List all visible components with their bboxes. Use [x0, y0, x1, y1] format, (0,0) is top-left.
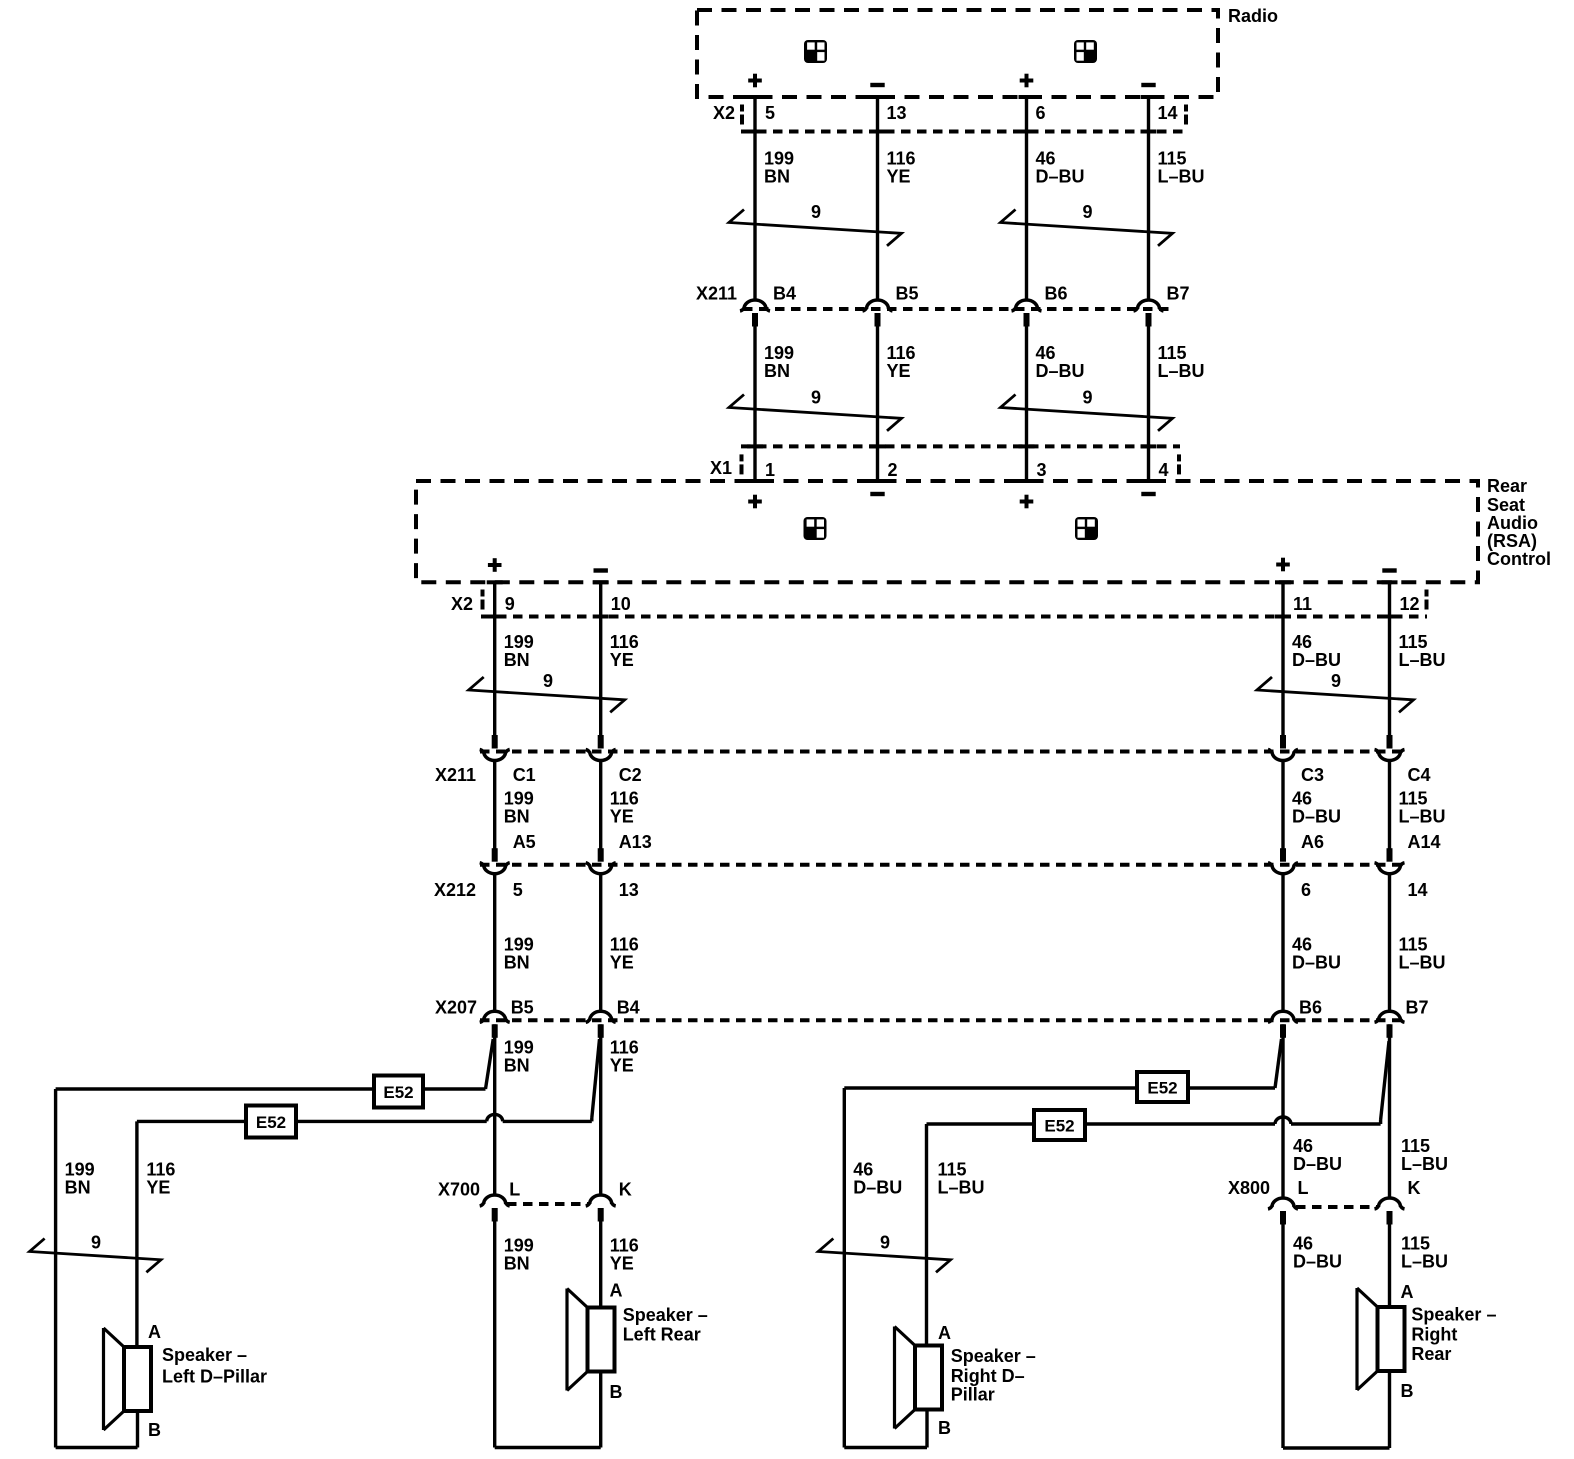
- wire 115 L-BU (E52 splice to right D-pillar speaker A): [925, 1124, 928, 1346]
- wire label 199 BN (below X700): [504, 1236, 534, 1274]
- connector X800 pin L: [1268, 1178, 1309, 1225]
- speaker - left D-pillar (symbol): [104, 1328, 152, 1430]
- svg-text:B: B: [148, 1420, 161, 1440]
- wire label 115 L-BU: [1399, 632, 1446, 670]
- svg-text:116: 116: [887, 343, 916, 363]
- svg-text:13: 13: [887, 103, 907, 123]
- svg-text:9: 9: [543, 671, 553, 691]
- svg-text:115: 115: [938, 1160, 967, 1180]
- wire label 199 BN: [504, 1038, 534, 1076]
- wire 46 D-BU (radio X2-6 to X211-B6): [1025, 97, 1028, 300]
- svg-text:3: 3: [1037, 460, 1047, 480]
- svg-text:C2: C2: [619, 765, 642, 785]
- wire 115 L-BU (X800-K to right rear speaker A): [1388, 1211, 1391, 1307]
- label Speaker - Right D-Pillar: [951, 1346, 1036, 1405]
- svg-text:116: 116: [610, 632, 639, 652]
- svg-text:115: 115: [1399, 935, 1428, 955]
- wire 115 L-BU (X207-B7 down to X800-K): [1388, 1024, 1391, 1198]
- wire 116 YE (X700-K to left rear speaker A): [599, 1208, 602, 1308]
- wire 199 BN (RSA X2-9 to X211-C1): [493, 582, 496, 735]
- connector X211 pin C1: [480, 735, 536, 785]
- svg-text:D–BU: D–BU: [1293, 1154, 1342, 1174]
- pin 5 (X2 radio): [765, 103, 775, 123]
- speaker-output icon (RSA left channel): [804, 517, 827, 540]
- svg-text:A6: A6: [1301, 832, 1324, 852]
- wire label 116 YE: [610, 1038, 639, 1076]
- pin 14 (X2 radio): [1158, 103, 1178, 123]
- wire label 115 L-BU: [1158, 343, 1205, 381]
- svg-text:B5: B5: [511, 998, 534, 1018]
- svg-text:12: 12: [1400, 594, 1420, 614]
- svg-text:9: 9: [811, 202, 821, 222]
- polarity - (radio pin 14): [1141, 83, 1155, 87]
- speaker - right rear (symbol): [1357, 1288, 1405, 1390]
- terminal B (right D-pillar): [938, 1418, 951, 1438]
- terminal A (left rear): [610, 1281, 623, 1301]
- wire 115 L-BU (RSA X2-12 to X211-C4): [1388, 582, 1391, 735]
- svg-text:199: 199: [504, 632, 534, 652]
- svg-text:5: 5: [513, 880, 523, 900]
- svg-text:Seat: Seat: [1487, 495, 1525, 515]
- svg-text:14: 14: [1408, 880, 1428, 900]
- speaker-output icon (radio right channel): [1074, 40, 1097, 63]
- svg-text:13: 13: [619, 880, 639, 900]
- svg-text:K: K: [1408, 1178, 1421, 1198]
- speaker - left rear (symbol): [567, 1289, 615, 1391]
- svg-text:2: 2: [888, 460, 898, 480]
- svg-text:X207: X207: [435, 998, 477, 1018]
- svg-text:115: 115: [1158, 149, 1187, 169]
- wire label 116 YE: [887, 149, 916, 187]
- svg-text:BN: BN: [504, 953, 530, 973]
- svg-text:199: 199: [764, 149, 794, 169]
- connector X211 pin B6: [1012, 284, 1068, 327]
- wire label 116 YE: [146, 1160, 175, 1198]
- wire label 116 YE: [610, 789, 639, 827]
- polarity - (RSA X2-12): [1382, 568, 1396, 572]
- wire 199 BN (X211-B4 to RSA X1-1): [753, 313, 756, 481]
- wire 115 L-BU (X211-C4 to X212-A14): [1388, 760, 1391, 849]
- wire 115 L-BU (X212-14 to X207-B7): [1388, 873, 1391, 1011]
- wire 199 BN (radio X2-5 to X211-B4): [753, 97, 756, 300]
- connector X211 (lower) label: [435, 765, 476, 785]
- connector X207 label: [435, 998, 477, 1018]
- branch 46 D-BU to splice E52 (diagonal): [1275, 1039, 1282, 1088]
- wire label 199 BN: [764, 343, 794, 381]
- speaker-output icon (radio left channel): [804, 40, 827, 63]
- svg-text:Audio: Audio: [1487, 513, 1538, 533]
- svg-text:B7: B7: [1406, 998, 1429, 1018]
- wire 46 D-BU (X207-B6 down to X800-L): [1281, 1024, 1284, 1198]
- pin 11 (X2 RSA): [1293, 594, 1312, 614]
- svg-text:46: 46: [1292, 935, 1312, 955]
- twisted pair symbol (199/116): [729, 202, 902, 246]
- wire 46 D-BU (E52 splice to right D-pillar speaker B): [844, 1088, 927, 1448]
- wire 116 YE (X211-B5 to RSA X1-2): [876, 313, 879, 481]
- svg-text:L: L: [1298, 1178, 1309, 1198]
- svg-text:116: 116: [610, 789, 639, 809]
- svg-text:D–BU: D–BU: [1292, 953, 1341, 973]
- branch 115 L-BU to splice E52 (diagonal): [1381, 1041, 1389, 1124]
- polarity - (radio pin 13): [870, 83, 884, 87]
- wire 46 D-BU (X211-B6 to RSA X1-3): [1025, 313, 1028, 481]
- svg-text:116: 116: [146, 1160, 175, 1180]
- svg-text:Right: Right: [1411, 1325, 1457, 1345]
- svg-text:YE: YE: [610, 1056, 634, 1076]
- connector X207 dashed line: [480, 1018, 1404, 1022]
- connector X211 pin B5: [863, 284, 919, 327]
- connector X2 (radio) dashed line: [741, 105, 1188, 134]
- connector X211 pin C4: [1375, 735, 1431, 785]
- wire 199 BN (E52 splice to left D-pillar speaker B): [56, 1089, 138, 1448]
- svg-text:46: 46: [1293, 1234, 1313, 1254]
- polarity + (radio pin 5): [748, 74, 762, 88]
- svg-text:X1: X1: [710, 458, 732, 478]
- connector X2 (radio) label and bracket: [713, 103, 744, 125]
- svg-text:YE: YE: [887, 167, 911, 187]
- wire label 115 L-BU: [1158, 149, 1205, 187]
- svg-text:199: 199: [504, 1038, 534, 1058]
- svg-text:L–BU: L–BU: [1399, 807, 1446, 827]
- wire 199 BN (X207-B5 down to X700-L): [493, 1024, 496, 1195]
- pin 4 (X1): [1159, 460, 1169, 480]
- svg-text:Radio: Radio: [1228, 6, 1278, 26]
- connector X211 (lower) dashed line: [480, 750, 1404, 754]
- connector X211 (upper) label: [696, 284, 737, 304]
- connector X700 label: [438, 1180, 480, 1200]
- svg-text:D–BU: D–BU: [1036, 167, 1085, 187]
- svg-text:L: L: [509, 1180, 520, 1200]
- svg-text:YE: YE: [610, 807, 634, 827]
- wire label 46 D-BU: [1292, 632, 1341, 670]
- connector X212 dashed line: [480, 863, 1404, 867]
- wire 199 BN (X212-5 to X207-B5): [493, 873, 496, 1011]
- pin 13 (X2 radio): [887, 103, 907, 123]
- terminal B (left rear): [610, 1382, 623, 1402]
- connector X800 pin K: [1375, 1178, 1421, 1225]
- pin 1 (X1): [765, 460, 775, 480]
- svg-text:9: 9: [1331, 671, 1341, 691]
- svg-text:E52: E52: [1044, 1117, 1074, 1136]
- label Radio: [1228, 6, 1278, 26]
- svg-text:199: 199: [504, 935, 534, 955]
- svg-text:K: K: [619, 1180, 632, 1200]
- terminal B (left D-pillar): [148, 1420, 161, 1440]
- splice feeder line E52 (116 YE to left D-pillar, hops over 199 BN): [137, 1114, 592, 1121]
- connector X212 pin 6: [1268, 848, 1311, 900]
- wire 46 D-BU (X211-C3 to X212-A6): [1281, 760, 1284, 849]
- svg-text:X700: X700: [438, 1180, 480, 1200]
- svg-text:B6: B6: [1299, 998, 1322, 1018]
- svg-text:46: 46: [1036, 149, 1056, 169]
- polarity + (RSA X2-9): [488, 558, 502, 572]
- wire label 115 L-BU: [1399, 935, 1446, 973]
- svg-text:L–BU: L–BU: [1158, 167, 1205, 187]
- wire label 115 L-BU (above X800): [1401, 1136, 1448, 1174]
- twisted pair symbol (199/116): [729, 388, 902, 431]
- wire label 46 D-BU (above X800): [1293, 1136, 1342, 1174]
- svg-text:D–BU: D–BU: [1292, 650, 1341, 670]
- svg-text:46: 46: [1036, 343, 1056, 363]
- twisted pair symbol (199/116 left D-pillar): [30, 1233, 161, 1273]
- svg-text:199: 199: [504, 789, 534, 809]
- connector X1 label and bracket: [710, 454, 744, 478]
- svg-text:L–BU: L–BU: [1399, 650, 1446, 670]
- splice E52 (upper left): [374, 1076, 423, 1108]
- connector X207 pin B7: [1375, 998, 1429, 1038]
- connector X800 label: [1228, 1178, 1270, 1198]
- connector X207 pin B4: [586, 998, 640, 1038]
- speaker - right D-pillar (symbol): [895, 1327, 943, 1429]
- svg-text:B6: B6: [1045, 284, 1068, 304]
- connector X211 pin C2: [586, 735, 642, 785]
- svg-text:5: 5: [765, 103, 775, 123]
- polarity + (radio pin 6): [1020, 74, 1034, 88]
- svg-text:YE: YE: [146, 1178, 170, 1198]
- svg-text:116: 116: [610, 935, 639, 955]
- svg-text:BN: BN: [504, 1254, 530, 1274]
- svg-text:B4: B4: [773, 284, 796, 304]
- wire 116 YE (X211-C2 to X212-A13): [599, 760, 602, 849]
- svg-text:Left D–Pillar: Left D–Pillar: [162, 1367, 267, 1387]
- twisted pair symbol (46/115): [1001, 388, 1173, 431]
- pin 2 (X1): [888, 460, 898, 480]
- pin 10 (X2 RSA): [611, 594, 631, 614]
- svg-text:L–BU: L–BU: [1399, 953, 1446, 973]
- svg-text:9: 9: [1082, 202, 1092, 222]
- wire label 115 L-BU: [1399, 789, 1446, 827]
- connector X211 pin B4: [740, 284, 796, 327]
- svg-text:BN: BN: [504, 807, 530, 827]
- svg-text:YE: YE: [610, 650, 634, 670]
- splice E52 (lower left): [246, 1106, 296, 1138]
- svg-text:L–BU: L–BU: [938, 1178, 985, 1198]
- twisted pair symbol (46/115): [1257, 671, 1414, 712]
- wire 46 D-BU (RSA X2-11 to X211-C3): [1281, 582, 1284, 735]
- svg-text:Rear: Rear: [1411, 1344, 1451, 1364]
- Rear Seat Audio (RSA) Control box (dashed): [416, 481, 1478, 582]
- svg-text:46: 46: [853, 1160, 873, 1180]
- pin 12 (X2 RSA): [1400, 594, 1420, 614]
- svg-text:BN: BN: [504, 1056, 530, 1076]
- connector X207 pin B5: [480, 998, 534, 1038]
- wire 116 YE (E52 splice to left D-pillar speaker A): [135, 1121, 138, 1347]
- svg-text:B: B: [938, 1418, 951, 1438]
- pin label A13: [619, 832, 652, 852]
- terminal A (left D-pillar): [148, 1322, 161, 1342]
- svg-text:A5: A5: [513, 832, 536, 852]
- svg-text:115: 115: [1158, 343, 1187, 363]
- wire label 116 YE (below X700): [610, 1236, 639, 1274]
- svg-text:L–BU: L–BU: [1401, 1154, 1448, 1174]
- wire label 199 BN: [504, 789, 534, 827]
- svg-text:X2: X2: [713, 103, 735, 123]
- svg-text:D–BU: D–BU: [1036, 361, 1085, 381]
- svg-text:X211: X211: [435, 765, 476, 785]
- polarity + (RSA X1-1): [748, 495, 762, 509]
- svg-text:Rear: Rear: [1487, 476, 1527, 496]
- terminal A (right rear): [1401, 1282, 1414, 1302]
- svg-text:116: 116: [610, 1236, 639, 1256]
- wire label 115 L-BU (below X800): [1401, 1234, 1448, 1272]
- Radio control module box (dashed): [697, 10, 1218, 97]
- svg-text:6: 6: [1301, 880, 1311, 900]
- label Speaker - Right Rear: [1411, 1305, 1496, 1365]
- svg-text:B7: B7: [1167, 284, 1190, 304]
- pin label A6: [1301, 832, 1324, 852]
- svg-text:B5: B5: [896, 284, 919, 304]
- wire label 116 YE: [610, 632, 639, 670]
- pin 3 (X1): [1037, 460, 1047, 480]
- svg-text:L–BU: L–BU: [1401, 1252, 1448, 1272]
- wire label 46 D-BU: [853, 1160, 902, 1198]
- svg-text:A: A: [148, 1322, 161, 1342]
- pin label A5: [513, 832, 536, 852]
- wire 116 YE (RSA X2-10 to X211-C2): [599, 582, 602, 735]
- splice feeder line E52 (199 BN to left D-pillar): [56, 1087, 486, 1090]
- twisted pair symbol (46/115 right D-pillar): [818, 1233, 950, 1273]
- svg-text:B: B: [1401, 1381, 1414, 1401]
- splice feeder line E52 (115 L-BU to right D-pillar, hops over 46 D-BU): [927, 1117, 1381, 1124]
- label Speaker - Left Rear: [623, 1305, 708, 1345]
- splice E52 (upper right): [1137, 1072, 1188, 1102]
- speaker-output icon (RSA right channel): [1075, 517, 1098, 540]
- splice E52 (lower right): [1034, 1110, 1085, 1140]
- svg-text:199: 199: [504, 1236, 534, 1256]
- svg-text:C4: C4: [1408, 765, 1431, 785]
- connector X2 (RSA) label and bracket: [451, 590, 485, 615]
- polarity - (RSA X1-2): [870, 492, 884, 496]
- svg-text:1: 1: [765, 460, 775, 480]
- connector X2 (RSA) dashed line: [481, 590, 1429, 619]
- svg-text:(RSA): (RSA): [1487, 531, 1537, 551]
- svg-text:11: 11: [1293, 594, 1312, 614]
- connector X700 pin L: [480, 1180, 521, 1222]
- connector X211 pin B7: [1134, 284, 1190, 327]
- wire label 46 D-BU: [1292, 935, 1341, 973]
- svg-text:B4: B4: [617, 998, 640, 1018]
- twisted pair symbol (46/115): [1001, 202, 1173, 246]
- svg-text:BN: BN: [764, 361, 790, 381]
- connector X700 pin K: [586, 1180, 632, 1222]
- svg-text:46: 46: [1293, 1136, 1313, 1156]
- connector X207 pin B6: [1268, 998, 1322, 1038]
- svg-text:9: 9: [1082, 388, 1092, 408]
- wire 46 D-BU (X800-L to right rear speaker B): [1283, 1211, 1390, 1448]
- wire 199 BN (X700-L to left rear speaker B): [495, 1208, 601, 1448]
- svg-text:BN: BN: [65, 1178, 91, 1198]
- wire 115 L-BU (radio X2-14 to X211-B7): [1147, 97, 1150, 300]
- wire 116 YE (X207-B4 down to X700-K): [599, 1024, 602, 1195]
- polarity - (RSA X2-10): [594, 568, 608, 572]
- svg-text:C3: C3: [1301, 765, 1324, 785]
- label Rear Seat Audio (RSA) Control: [1487, 476, 1551, 569]
- svg-text:X211: X211: [696, 284, 737, 304]
- wire label 199 BN: [65, 1160, 95, 1198]
- svg-text:D–BU: D–BU: [1292, 807, 1341, 827]
- svg-text:Speaker –: Speaker –: [951, 1346, 1036, 1366]
- connector X212 pin 14: [1375, 848, 1428, 900]
- wire label 115 L-BU: [938, 1160, 985, 1198]
- svg-text:BN: BN: [764, 167, 790, 187]
- svg-text:Left Rear: Left Rear: [623, 1325, 701, 1345]
- svg-text:6: 6: [1036, 103, 1046, 123]
- connector X800 dashed line: [1296, 1205, 1378, 1209]
- polarity + (RSA X2-11): [1276, 558, 1290, 572]
- svg-text:A: A: [1401, 1282, 1414, 1302]
- polarity - (RSA X1-4): [1141, 492, 1155, 496]
- wire label 46 D-BU: [1292, 789, 1341, 827]
- branch 116 YE to splice E52 (diagonal): [592, 1039, 600, 1121]
- polarity + (RSA X1-3): [1020, 495, 1034, 509]
- wire label 199 BN: [504, 935, 534, 973]
- svg-text:YE: YE: [610, 1254, 634, 1274]
- branch 199 BN to splice E52 (diagonal): [486, 1039, 494, 1089]
- svg-text:D–BU: D–BU: [853, 1178, 902, 1198]
- svg-text:9: 9: [91, 1233, 101, 1253]
- svg-text:E52: E52: [256, 1113, 286, 1132]
- tick marks radio box bottom at wires: [747, 95, 1157, 99]
- svg-text:YE: YE: [610, 953, 634, 973]
- tick marks RSA box top at wires: [747, 479, 1157, 483]
- wire label 199 BN: [504, 632, 534, 670]
- svg-text:Speaker –: Speaker –: [162, 1345, 247, 1365]
- svg-text:9: 9: [811, 388, 821, 408]
- svg-text:4: 4: [1159, 460, 1169, 480]
- terminal B (right rear): [1401, 1381, 1414, 1401]
- svg-text:X212: X212: [434, 880, 476, 900]
- svg-text:Pillar: Pillar: [951, 1385, 995, 1405]
- wire 116 YE (X212-13 to X207-B4): [599, 873, 602, 1011]
- svg-text:D–BU: D–BU: [1293, 1252, 1342, 1272]
- wire label 46 D-BU: [1036, 149, 1085, 187]
- wire label 46 D-BU: [1036, 343, 1085, 381]
- svg-text:Control: Control: [1487, 549, 1551, 569]
- svg-text:199: 199: [65, 1160, 95, 1180]
- svg-text:Speaker –: Speaker –: [1411, 1305, 1496, 1325]
- svg-text:A14: A14: [1408, 832, 1441, 852]
- svg-text:X2: X2: [451, 594, 473, 614]
- svg-text:A: A: [610, 1281, 623, 1301]
- svg-text:115: 115: [1399, 789, 1428, 809]
- wire 116 YE (radio X2-13 to X211-B5): [876, 97, 879, 300]
- wire label 199 BN: [764, 149, 794, 187]
- svg-text:A: A: [938, 1323, 951, 1343]
- connector X1 dashed line: [741, 444, 1181, 474]
- svg-text:46: 46: [1292, 789, 1312, 809]
- pin 9 (X2 RSA): [505, 594, 515, 614]
- svg-text:10: 10: [611, 594, 631, 614]
- connector X211 pin C3: [1268, 735, 1324, 785]
- terminal A (right D-pillar): [938, 1323, 951, 1343]
- label Speaker - Left D-Pillar: [162, 1345, 267, 1387]
- svg-text:115: 115: [1401, 1136, 1430, 1156]
- svg-text:115: 115: [1399, 632, 1428, 652]
- svg-text:Speaker –: Speaker –: [623, 1305, 708, 1325]
- svg-text:BN: BN: [504, 650, 530, 670]
- svg-text:C1: C1: [513, 765, 536, 785]
- tick marks RSA box bottom at wires: [487, 580, 1398, 584]
- svg-text:9: 9: [505, 594, 515, 614]
- connector X700 dashed line: [507, 1202, 589, 1206]
- connector X212 label: [434, 880, 476, 900]
- wire 199 BN (X211-C1 to X212-A5): [493, 760, 496, 849]
- wire 115 L-BU (X211-B7 to RSA X1-4): [1147, 313, 1150, 481]
- svg-text:YE: YE: [887, 361, 911, 381]
- svg-text:B: B: [610, 1382, 623, 1402]
- connector X211 (upper) dashed line: [743, 307, 1172, 311]
- connector X212 pin 13: [586, 848, 639, 900]
